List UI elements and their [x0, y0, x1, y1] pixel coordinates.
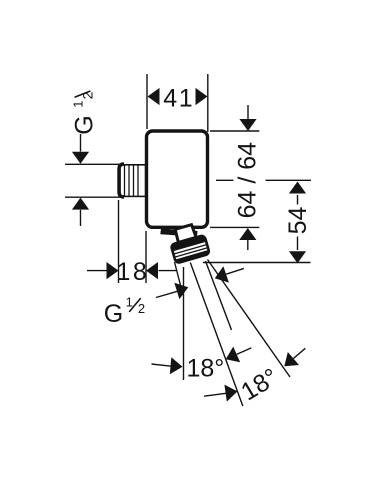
- svg-text:64 / 64: 64 / 64: [233, 142, 261, 219]
- svg-text:41: 41: [163, 84, 194, 112]
- svg-text:54: 54: [284, 206, 312, 234]
- svg-text:G: G: [71, 115, 99, 134]
- svg-text:2: 2: [138, 301, 145, 316]
- svg-text:G: G: [104, 300, 123, 328]
- svg-text:1: 1: [126, 295, 133, 310]
- svg-text:1: 1: [71, 101, 86, 108]
- svg-text:18°: 18°: [187, 354, 225, 382]
- svg-text:2: 2: [79, 91, 95, 99]
- svg-text:18: 18: [117, 258, 150, 286]
